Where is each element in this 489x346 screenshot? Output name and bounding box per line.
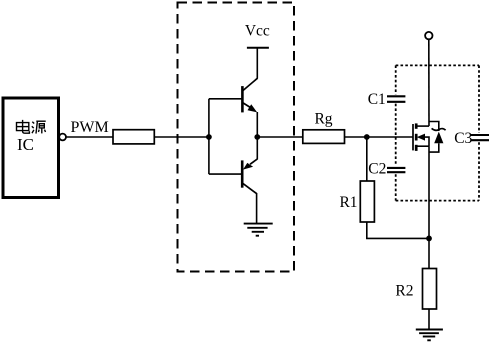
wire source down through node S to R2: [428, 146, 430, 268]
MOSFET Q3 channel segments: [415, 123, 418, 150]
svg-text:IC: IC: [17, 135, 34, 154]
svg-text:R1: R1: [339, 194, 357, 211]
wire Rg to node G: [345, 136, 367, 138]
svg-text:C2: C2: [368, 160, 386, 177]
resistor R1: [360, 181, 374, 222]
MOSFET body stub: [425, 137, 430, 146]
node A junction: [206, 134, 212, 140]
wire Q1 emitter to output node: [256, 112, 258, 137]
resistor Rg: [303, 130, 345, 144]
capacitor C2: [387, 168, 405, 172]
body diode D1 triangle: [434, 132, 443, 144]
driver stage dashed box: [178, 3, 295, 272]
MOSFET dotted box: [396, 65, 479, 200]
wire node G to gate: [367, 136, 413, 138]
resistor (input, unlabeled): [113, 130, 154, 144]
body diode D1 bottom lead: [429, 143, 439, 152]
wire to Q2 base: [209, 173, 242, 175]
wire PWM to input resistor: [66, 136, 113, 138]
svg-text:PWM: PWM: [71, 119, 109, 136]
wire input resistor to node A: [154, 136, 209, 138]
svg-text:Rg: Rg: [314, 111, 332, 128]
svg-text:Vcc: Vcc: [245, 23, 270, 40]
wire output node to Q2 emitter: [256, 137, 258, 159]
MOSFET body arrow: [417, 134, 425, 141]
output node junction: [254, 134, 260, 140]
wire node G down to R1: [366, 137, 368, 181]
body diode D1 cathode bar: [432, 128, 446, 130]
wire output node to Rg: [257, 136, 303, 138]
ground (driver): [244, 224, 273, 236]
PWM terminal: [59, 134, 66, 141]
power IC box U1: [3, 98, 59, 198]
svg-text:C1: C1: [368, 91, 386, 108]
svg-text:C3: C3: [454, 130, 472, 147]
top terminal: [425, 32, 432, 39]
node G junction: [364, 134, 370, 140]
body diode D1 top lead: [429, 122, 439, 132]
MOSFET drain stub: [416, 125, 429, 127]
wire Vcc to Q1 collector: [256, 48, 258, 79]
label 电 (dian): [17, 120, 30, 133]
label 源 (yuan): [32, 121, 46, 133]
node S junction: [426, 236, 432, 242]
capacitor C3: [471, 135, 489, 140]
MOSFET source stub: [416, 145, 429, 147]
MOSFET Q3 gate bar: [412, 124, 414, 150]
capacitor C1: [387, 96, 405, 102]
Vcc rail bar: [247, 47, 269, 49]
transistor Q1 (NPN): [242, 78, 257, 112]
ground (output): [416, 330, 443, 341]
wire to Q1 base: [209, 98, 242, 100]
wire terminal to drain: [428, 39, 430, 126]
transistor Q2 (PNP): [242, 159, 257, 194]
wire Q2 collector to ground: [256, 193, 258, 224]
wire R1 bottom to node S: [367, 222, 429, 238]
resistor R2: [423, 269, 437, 310]
svg-text:R2: R2: [395, 282, 413, 299]
wire base branch vertical: [208, 99, 210, 174]
wire R2 to ground: [428, 309, 430, 330]
